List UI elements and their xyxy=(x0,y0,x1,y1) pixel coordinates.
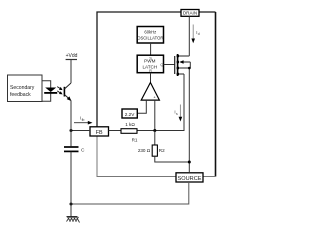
svg-text:2.2V: 2.2V xyxy=(125,112,136,117)
current arrow Is xyxy=(174,105,182,122)
svg-text:+Vdd: +Vdd xyxy=(66,53,78,59)
transistor Q1 MOSFET xyxy=(175,54,191,76)
svg-text:FB: FB xyxy=(96,130,103,136)
node junction FB xyxy=(70,129,73,132)
wire body-source return xyxy=(189,62,190,173)
reference 2.2V xyxy=(122,109,137,118)
wire FB node to capacitor xyxy=(70,131,72,147)
diode D1 LED xyxy=(44,88,57,94)
svg-text:SOURCE: SOURCE xyxy=(178,176,202,182)
svg-text:s: s xyxy=(176,112,178,116)
wire source to sense node xyxy=(155,74,184,131)
wire drain xyxy=(188,16,190,56)
node junction sense xyxy=(153,129,156,132)
resistor R2 xyxy=(138,131,165,157)
node junction body xyxy=(188,67,191,70)
svg-text:R: R xyxy=(149,69,152,73)
svg-text:1 kΩ: 1 kΩ xyxy=(125,122,135,127)
svg-text:feedback: feedback xyxy=(10,92,31,98)
current arrow Ifb xyxy=(74,116,93,125)
node junction source xyxy=(188,161,191,164)
svg-text:DRAIN: DRAIN xyxy=(183,11,197,16)
wire R2 to source pin xyxy=(155,156,190,162)
SOURCE pin xyxy=(176,173,203,182)
svg-text:OSCILLATOR: OSCILLATOR xyxy=(137,35,163,40)
svg-text:C: C xyxy=(81,148,85,154)
svg-text:R2: R2 xyxy=(159,148,165,153)
resistor R1 xyxy=(121,122,138,143)
capacitor C xyxy=(64,147,85,154)
transistor Q2 phototransistor xyxy=(64,83,71,101)
opto light arrows xyxy=(57,87,62,95)
wire source pin external xyxy=(71,182,189,204)
IC outline U1 xyxy=(97,12,216,177)
comparator U3 xyxy=(141,83,159,101)
supply +Vdd xyxy=(66,53,78,83)
wire feedback node xyxy=(71,130,90,132)
wire comparator minus input xyxy=(138,100,147,113)
svg-text:fb: fb xyxy=(82,118,85,122)
wire latch Q to gate xyxy=(164,64,175,66)
FB pin xyxy=(90,127,109,136)
svg-text:R1: R1 xyxy=(132,138,138,143)
wire LED loop xyxy=(42,81,51,88)
svg-text:Q: Q xyxy=(160,63,163,67)
oscillator block xyxy=(137,27,163,44)
svg-text:Secondary: Secondary xyxy=(10,85,35,91)
secondary feedback block xyxy=(8,75,43,102)
wire latch R input from comparator xyxy=(150,73,152,83)
DRAIN pin xyxy=(181,10,199,17)
wire oscillator to latch xyxy=(150,43,152,55)
wire comparator plus input xyxy=(154,100,156,130)
current arrow Id xyxy=(191,25,199,44)
svg-text:230 Ω: 230 Ω xyxy=(138,148,151,153)
svg-text:60kHz: 60kHz xyxy=(144,29,156,34)
svg-text:d: d xyxy=(198,32,200,36)
wire emitter to FB node xyxy=(70,101,72,131)
ground xyxy=(67,217,80,223)
node junction ground xyxy=(70,203,73,206)
wire capacitor to ground xyxy=(70,152,72,217)
PWM latch U2 xyxy=(137,55,163,73)
